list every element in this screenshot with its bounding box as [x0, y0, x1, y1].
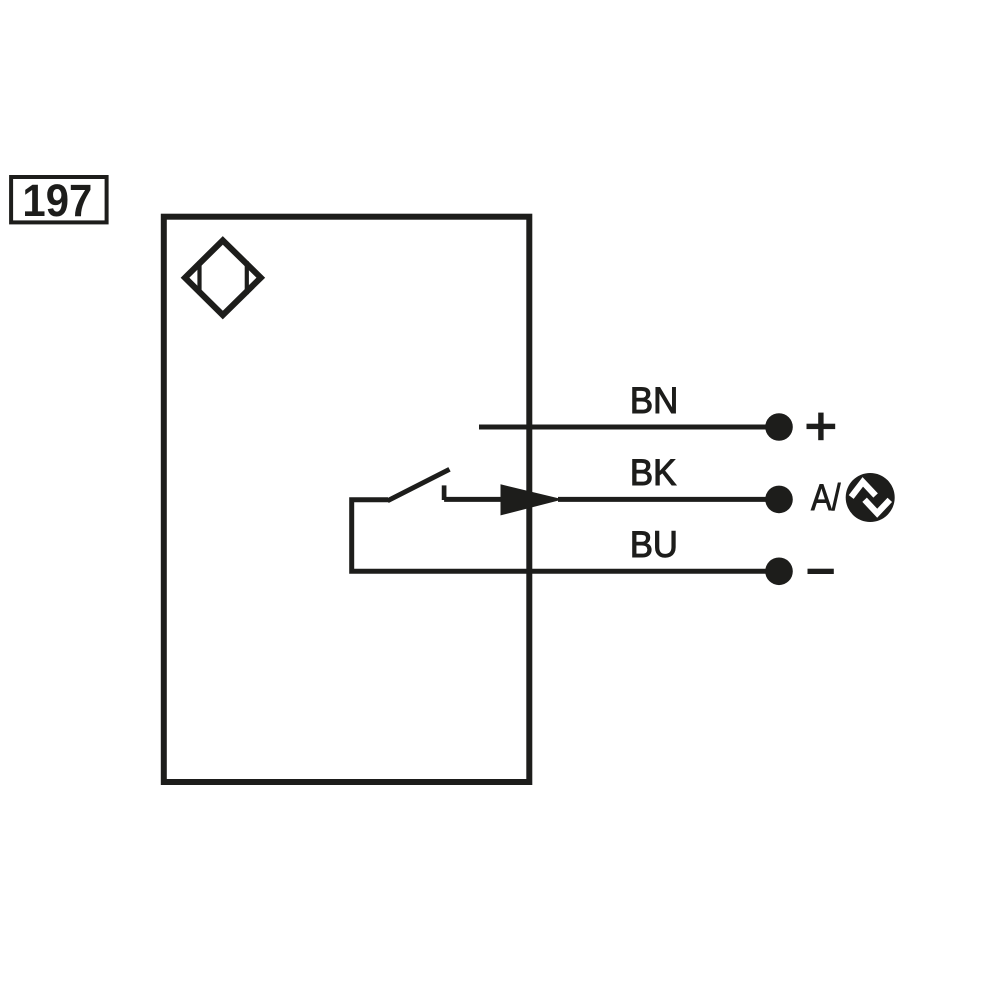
page number box: [11, 177, 107, 222]
wire BK right segment: [558, 497, 779, 502]
svg-text:BN: BN: [630, 380, 678, 421]
switching output icon: [846, 473, 895, 522]
switch arm: [388, 469, 450, 501]
sensor body outline: [164, 217, 530, 782]
terminal dot BN: [765, 413, 793, 441]
svg-text:A/: A/: [811, 477, 841, 518]
terminal dot BU: [765, 558, 793, 586]
wire BK left segment: [444, 497, 505, 502]
terminal dot BK: [765, 486, 793, 514]
output arrow: [501, 484, 564, 515]
plus terminal symbol: [807, 413, 836, 441]
manufacturer diamond logo: [185, 240, 261, 315]
wire from switch to BU (L-shaped): [352, 500, 779, 572]
switch contact tick: [442, 485, 447, 500]
wire BN: [479, 425, 779, 430]
minus terminal symbol: [808, 569, 834, 574]
svg-text:BU: BU: [630, 524, 678, 565]
svg-text:197: 197: [22, 175, 92, 226]
svg-text:BK: BK: [630, 452, 677, 493]
